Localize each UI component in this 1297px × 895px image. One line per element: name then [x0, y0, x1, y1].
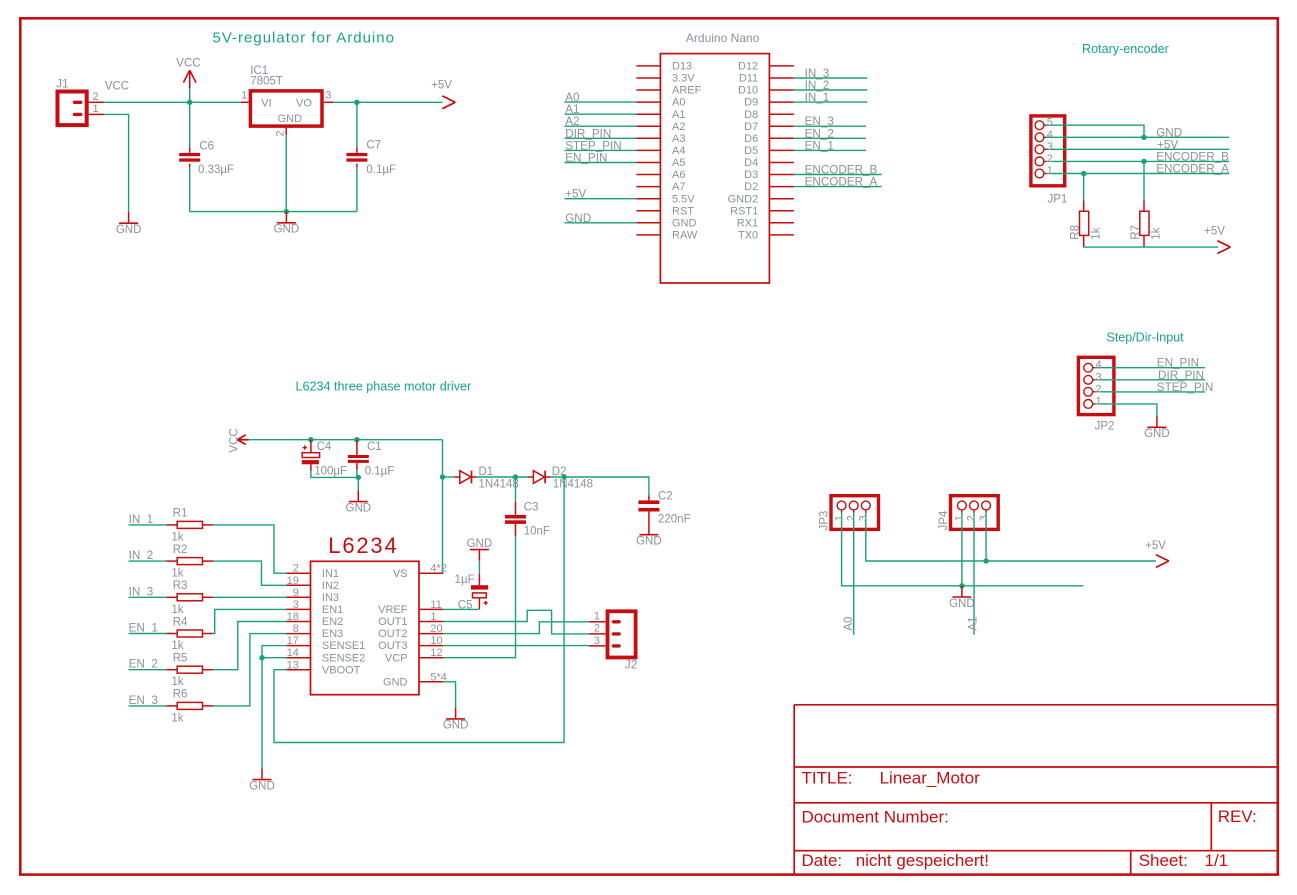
Arduino left pin A0 stub [636, 101, 660, 103]
supply symbol VCC left arrow [229, 428, 249, 452]
wire net DIR_PIN [1116, 379, 1205, 381]
wire GND drop under C1 [357, 477, 359, 490]
svg-text:1k: 1k [171, 568, 183, 580]
svg-text:GND: GND [346, 502, 372, 514]
svg-text:EN_3: EN_3 [805, 115, 834, 128]
svg-text:Step/Dir-Input: Step/Dir-Input [1107, 331, 1185, 345]
wire net ENCODER_A rotary [1066, 173, 1229, 175]
junction VCC at C1 [354, 437, 359, 442]
Arduino left pin A7 stub [636, 186, 660, 188]
diode D2 1N4148 [528, 466, 593, 490]
junction ENCODER_B at R7 [1141, 159, 1146, 164]
svg-text:2: 2 [275, 130, 287, 136]
resistor R6 1k [166, 689, 213, 725]
pin header JP3 [819, 496, 879, 537]
Arduino right pin D5 stub [769, 149, 794, 151]
capacitor C1 [348, 440, 395, 478]
L6234 pin 5*4 (GND) stub [419, 681, 443, 683]
svg-text:3: 3 [1047, 141, 1053, 153]
svg-text:STEP_PIN: STEP_PIN [1157, 381, 1214, 394]
svg-text:+5V: +5V [1157, 138, 1178, 151]
capacitor C5 (electrolytic, flipped) [455, 574, 489, 611]
wire net A0 [853, 537, 855, 635]
junction GND under C1 [356, 475, 361, 480]
wire +5V from IC1 VO [333, 101, 442, 103]
ground symbol JP2 [1144, 416, 1170, 440]
wire net EN_PIN to Arduino A5 [564, 162, 636, 164]
Arduino right pin D9 stub [769, 101, 794, 103]
L6234 pin 19 (IN2) stub [287, 584, 311, 586]
svg-text:+5V: +5V [565, 188, 586, 201]
wire net A1 [973, 537, 975, 635]
svg-text:GND2: GND2 [728, 193, 759, 205]
wire JP4 pin1 drop [961, 537, 963, 586]
svg-text:GND: GND [249, 780, 275, 792]
svg-text:A0: A0 [842, 616, 855, 631]
svg-text:GND: GND [565, 212, 591, 225]
svg-text:C6: C6 [199, 140, 214, 152]
svg-text:EN_2: EN_2 [129, 658, 158, 671]
wire pullups to +5V arrow [1084, 246, 1218, 248]
wire net EN_1 from Arduino D5 [794, 149, 866, 151]
svg-text:1: 1 [93, 103, 99, 115]
svg-text:OUT2: OUT2 [378, 628, 407, 640]
svg-text:GND: GND [274, 224, 300, 236]
svg-text:ENCODER_A: ENCODER_A [1156, 163, 1229, 176]
Arduino right pin D4 stub [769, 162, 794, 164]
svg-text:2: 2 [845, 515, 857, 521]
wire net DIR_PIN to Arduino A3 [564, 137, 636, 139]
svg-text:EN2: EN2 [322, 616, 343, 628]
svg-text:D11: D11 [739, 73, 758, 85]
wire VS branch to D1 [443, 476, 455, 478]
wire J1 pin1 to GND [104, 114, 129, 212]
wire R3 to IN3 [213, 596, 286, 598]
Arduino left pin A5 stub [636, 162, 660, 164]
junction VCC at C6 [187, 100, 192, 105]
Arduino right pin D6 stub [769, 137, 794, 139]
Arduino right pin D12 stub [769, 65, 794, 67]
capacitor C7 [346, 140, 396, 176]
svg-text:18: 18 [287, 611, 299, 623]
title block Document Number row text [802, 807, 1257, 826]
svg-text:IN2: IN2 [322, 580, 339, 592]
svg-text:1k: 1k [171, 712, 183, 724]
svg-text:2: 2 [966, 515, 978, 521]
svg-text:IN_2: IN_2 [129, 549, 154, 562]
svg-text:RAW: RAW [672, 230, 698, 242]
svg-text:ENCODER_B: ENCODER_B [805, 164, 878, 177]
L6234 pin 10 (OUT3) stub [419, 645, 443, 647]
svg-text:JP4: JP4 [938, 510, 950, 530]
svg-text:+5V: +5V [1204, 226, 1225, 238]
wire IC1 pin2 down to GND rail [285, 135, 287, 211]
svg-text:3: 3 [594, 635, 600, 647]
svg-text:0.33µF: 0.33µF [198, 164, 234, 176]
pin header JP1 [1031, 116, 1067, 206]
svg-text:IN_3: IN_3 [129, 585, 154, 598]
svg-text:IN3: IN3 [322, 592, 339, 604]
svg-text:GND: GND [949, 598, 975, 610]
L6234 pin 12 (VCP) stub [419, 657, 443, 659]
voltage regulator IC1 7805T [250, 65, 322, 126]
svg-text:2: 2 [1096, 383, 1102, 395]
L6234 pin 14 (SENSE2) stub [287, 657, 311, 659]
svg-text:VS: VS [393, 568, 408, 580]
svg-text:DIR_PIN: DIR_PIN [565, 127, 611, 140]
resistor R2 1k [166, 544, 213, 580]
svg-text:VCC: VCC [105, 80, 129, 92]
junction VS-diode branch [440, 474, 445, 479]
svg-text:R4: R4 [173, 616, 188, 628]
wire D1 cathode to D2 anode [477, 476, 528, 478]
svg-text:GND: GND [278, 113, 303, 125]
junction D2-VBOOT [561, 474, 566, 479]
svg-text:12: 12 [430, 647, 442, 659]
connector J2 [608, 611, 638, 671]
svg-text:3: 3 [858, 515, 870, 521]
svg-text:EN_PIN: EN_PIN [1157, 357, 1199, 370]
J2 pin 2 stub [589, 633, 606, 635]
svg-text:JP2: JP2 [1095, 420, 1115, 432]
wire net IN_1 from Arduino D9 [794, 101, 867, 103]
wire C5 to VREF [443, 608, 479, 610]
resistor R3 1k [166, 580, 213, 616]
supply symbol +5V arrow (headers) [1145, 540, 1169, 567]
svg-text:1k: 1k [171, 640, 183, 652]
svg-text:GND: GND [116, 224, 142, 236]
svg-text:C1: C1 [367, 441, 382, 453]
wire net EN_2 from Arduino D6 [794, 137, 866, 139]
L6234 pin 11 (VREF) stub [419, 608, 443, 610]
svg-text:EN_1: EN_1 [805, 139, 834, 152]
svg-text:C4: C4 [317, 441, 332, 453]
ground symbol above C5 (flipped) [467, 538, 493, 561]
svg-text:R6: R6 [173, 689, 188, 701]
svg-text:14: 14 [287, 647, 299, 659]
wire JP4 pin3 drop [985, 537, 987, 561]
junction ENCODER_A at R8 [1081, 171, 1086, 176]
wire R1 to IN1 [213, 525, 286, 573]
svg-text:R2: R2 [173, 544, 188, 556]
wire C7 to GND rail [356, 167, 358, 212]
L6234 pin 8 (EN3) stub [287, 633, 311, 635]
svg-text:EN_1: EN_1 [129, 622, 158, 635]
Arduino left pin GND stub [636, 222, 660, 224]
Arduino left pin A4 stub [636, 149, 660, 151]
svg-text:Arduino Nano: Arduino Nano [686, 31, 760, 45]
svg-text:VBOOT: VBOOT [322, 664, 361, 676]
wire net STEP_PIN [1116, 391, 1205, 393]
wire R2 to IN2 [213, 561, 286, 585]
svg-text:19: 19 [287, 575, 299, 587]
ground symbol J1 [116, 212, 142, 236]
svg-text:EN_3: EN_3 [129, 694, 158, 707]
svg-text:L6234 three phase motor driver: L6234 three phase motor driver [296, 380, 472, 394]
wire net +5V rotary [1066, 148, 1229, 150]
svg-text:VREF: VREF [378, 604, 408, 616]
capacitor C3 [505, 477, 550, 538]
wire EN_2 to R5 [129, 669, 167, 671]
L6234 driver IC body [311, 561, 420, 694]
wire net +5V to Arduino 5.5V [564, 198, 636, 200]
svg-text:1: 1 [833, 515, 845, 521]
svg-text:A7: A7 [672, 181, 685, 193]
Arduino left pin 5.5V stub [636, 198, 660, 200]
wire IN_2 to R2 [129, 560, 167, 562]
svg-text:C2: C2 [658, 490, 673, 502]
svg-text:VI: VI [261, 97, 271, 109]
Arduino right pin D10 stub [769, 89, 794, 91]
diode D1 1N4148 [454, 466, 518, 490]
svg-text:STEP_PIN: STEP_PIN [565, 139, 622, 152]
svg-text:1k: 1k [1151, 227, 1163, 239]
capacitor C2 [638, 490, 690, 525]
svg-text:3: 3 [1096, 371, 1102, 383]
wire R4 to EN1 [213, 609, 286, 633]
title block outline [794, 705, 1278, 875]
svg-text:JP1: JP1 [1048, 194, 1068, 206]
L6234 pin 1 (OUT1) stub [419, 621, 443, 623]
wire net A0 to Arduino A0 [564, 101, 636, 103]
pin header JP2 [1078, 357, 1115, 432]
Arduino right pin D7 stub [769, 125, 794, 127]
svg-text:A2: A2 [672, 121, 685, 133]
IC1 pin 1 stub [241, 101, 249, 103]
resistor R8 [1070, 200, 1103, 247]
svg-text:9: 9 [293, 587, 299, 599]
svg-text:EN_2: EN_2 [805, 127, 834, 140]
svg-text:AREF: AREF [672, 85, 702, 97]
svg-text:D8: D8 [744, 109, 758, 121]
svg-text:R5: R5 [173, 653, 188, 665]
pin header JP4 [938, 496, 998, 537]
svg-text:D10: D10 [738, 85, 758, 97]
svg-text:2: 2 [594, 623, 600, 635]
svg-text:100µF: 100µF [314, 466, 347, 478]
svg-text:13: 13 [287, 659, 299, 671]
Arduino left pin A2 stub [636, 125, 660, 127]
Arduino left pin D13 stub [636, 65, 660, 67]
resistor R7 [1130, 200, 1163, 247]
svg-text:VCC: VCC [176, 58, 200, 70]
svg-text:1k: 1k [171, 604, 183, 616]
svg-text:5.5V: 5.5V [672, 193, 695, 205]
Arduino right pin D2 stub [769, 186, 794, 188]
wire net STEP_PIN to Arduino A4 [564, 149, 636, 151]
wire JP3 pin3 to +5V rail [866, 537, 1156, 561]
wire +5V down to C7 [356, 102, 358, 147]
svg-text:2: 2 [1047, 153, 1053, 165]
L6234 pin 18 (EN2) stub [287, 621, 311, 623]
wire VCC rail L6234 [249, 439, 443, 441]
svg-text:1µF: 1µF [455, 574, 475, 586]
Arduino right pin D8 stub [769, 113, 794, 115]
wire C3 top [515, 477, 517, 502]
ground symbol under IC1 [274, 212, 300, 236]
svg-text:IN_1: IN_1 [805, 91, 830, 104]
ground symbol headers [949, 586, 975, 610]
Arduino left pin 3.3V stub [636, 77, 660, 79]
wire net GND rotary [1066, 136, 1229, 138]
IC1 pin 3 stub [324, 101, 334, 103]
svg-text:D5: D5 [744, 145, 758, 157]
L6234 pin 3 (EN1) stub [287, 608, 311, 610]
svg-text:TX0: TX0 [738, 230, 758, 242]
Arduino right pin RX1 stub [769, 222, 794, 224]
svg-text:RX1: RX1 [737, 217, 758, 229]
junction VCC at C4 [308, 437, 313, 442]
Arduino right pin GND2 stub [769, 198, 794, 200]
svg-text:R3: R3 [173, 580, 188, 592]
capacitor C4 (electrolytic) [302, 440, 347, 478]
svg-text:D7: D7 [744, 121, 758, 133]
junction +5V at C7 [354, 100, 359, 105]
wire OUT2 to J2 pin1 [443, 622, 589, 634]
svg-text:1/1: 1/1 [1205, 851, 1229, 870]
svg-text:1: 1 [954, 515, 966, 521]
svg-text:nicht gespeichert!: nicht gespeichert! [856, 851, 989, 870]
svg-text:D3: D3 [744, 169, 758, 181]
svg-text:RST1: RST1 [730, 205, 758, 217]
svg-text:ENCODER_B: ENCODER_B [1156, 151, 1229, 164]
title block TITLE row text [802, 768, 981, 787]
ground symbol sense [249, 768, 275, 792]
connector J1 [56, 77, 87, 125]
resistor R5 1k [166, 653, 213, 689]
svg-text:A5: A5 [672, 157, 685, 169]
junction +5V at JP4 pin3 [983, 558, 988, 563]
wire C3 to VCP [443, 536, 515, 658]
wire C4 to GND corner [311, 471, 358, 478]
svg-text:D9: D9 [744, 97, 758, 109]
svg-text:EN1: EN1 [322, 604, 343, 616]
svg-text:A6: A6 [672, 169, 685, 181]
supply symbol +5V arrow (regulator) [431, 80, 455, 109]
svg-text:3: 3 [978, 515, 990, 521]
svg-text:R7: R7 [1130, 225, 1142, 240]
svg-text:VO: VO [296, 97, 312, 109]
svg-text:IN_1: IN_1 [129, 513, 154, 526]
svg-text:1k: 1k [171, 531, 183, 543]
svg-text:GND: GND [672, 217, 697, 229]
Arduino left pin A6 stub [636, 174, 660, 176]
svg-text:SENSE2: SENSE2 [322, 652, 365, 664]
svg-text:17: 17 [287, 635, 299, 647]
svg-text:JP3: JP3 [819, 511, 831, 531]
svg-text:A2: A2 [565, 115, 579, 128]
svg-text:1: 1 [1047, 165, 1053, 177]
wire net ENCODER_B from Arduino D3 [794, 174, 882, 176]
wire ENCODER_B down to R7 [1143, 161, 1145, 200]
L6234 pin 13 (VBOOT) stub [287, 669, 311, 671]
svg-text:20: 20 [430, 623, 442, 635]
svg-text:3.3V: 3.3V [672, 73, 695, 85]
svg-text:TITLE:: TITLE: [802, 768, 853, 787]
svg-text:OUT1: OUT1 [378, 616, 407, 628]
wire C1 to GND drop [356, 470, 358, 477]
svg-text:GND: GND [1156, 126, 1182, 139]
resistor R1 1k [166, 508, 213, 544]
svg-text:D2: D2 [744, 181, 758, 193]
wire VCC from J1 pin2 to IC1 VI [104, 101, 241, 103]
svg-text:ENCODER_A: ENCODER_A [805, 176, 878, 189]
wire GND rail under regulator [190, 211, 357, 213]
svg-text:EN3: EN3 [322, 628, 343, 640]
L6234 pin 4*2 (VS) stub [419, 572, 443, 574]
svg-text:1: 1 [241, 89, 247, 101]
wire C6 to GND rail [189, 167, 191, 212]
svg-text:EN_PIN: EN_PIN [565, 152, 607, 165]
svg-text:1k: 1k [171, 676, 183, 688]
svg-text:GND: GND [636, 536, 662, 548]
J2 pin 1 stub [589, 621, 606, 623]
svg-text:R1: R1 [173, 508, 188, 520]
junction GND at JP4 pin1 [959, 583, 964, 588]
wire IN_3 to R3 [129, 596, 167, 598]
svg-text:1: 1 [430, 611, 436, 623]
Arduino right pin RST1 stub [769, 210, 794, 212]
wire IN_1 to R1 [129, 524, 167, 526]
wire net EN_3 from Arduino D7 [794, 125, 866, 127]
svg-text:IN1: IN1 [322, 568, 339, 580]
svg-text:GND: GND [467, 538, 493, 550]
svg-text:A4: A4 [672, 145, 685, 157]
wire net ENCODER_A from Arduino D2 [794, 186, 882, 188]
wire JP1 pin5 to GND net [1066, 125, 1144, 137]
svg-text:0.1µF: 0.1µF [366, 164, 396, 176]
wire SENSE1 to SENSE2 [262, 646, 287, 658]
junction SENSE1-SENSE2 [259, 655, 264, 660]
svg-text:8: 8 [293, 623, 299, 635]
svg-text:D13: D13 [672, 61, 692, 73]
J2 pin 3 stub [589, 645, 606, 647]
wire net A2 to Arduino A2 [564, 125, 636, 127]
svg-text:10nF: 10nF [524, 526, 550, 538]
L6234 pin 17 (SENSE1) stub [287, 645, 311, 647]
svg-text:J2: J2 [625, 657, 638, 671]
Arduino right pin TX0 stub [769, 234, 794, 236]
Arduino left pin RST stub [636, 210, 660, 212]
Arduino right pin D11 stub [769, 77, 794, 79]
wire R5 to EN2 [213, 622, 286, 670]
svg-text:VCP: VCP [385, 652, 408, 664]
junction D1-C3 [513, 474, 518, 479]
svg-text:5: 5 [1047, 117, 1053, 129]
svg-text:3: 3 [293, 599, 299, 611]
L6234 pin 2 (IN1) stub [287, 572, 311, 574]
wire VCC down to VS [442, 440, 445, 574]
svg-text:4: 4 [1096, 359, 1102, 371]
ground symbol under L6234 [443, 708, 469, 732]
wire EN_1 to R4 [129, 633, 167, 635]
svg-text:A1: A1 [672, 109, 685, 121]
resistor R4 1k [166, 616, 213, 652]
supply symbol +5V arrow (rotary) [1204, 226, 1230, 254]
svg-text:4: 4 [1047, 129, 1053, 141]
svg-text:GND: GND [443, 720, 469, 732]
svg-text:GND: GND [383, 676, 408, 688]
wire net A1 to Arduino A1 [564, 113, 636, 115]
wire net EN_PIN [1116, 367, 1205, 369]
L6234 pin 9 (IN3) stub [287, 596, 311, 598]
svg-text:Sheet:: Sheet: [1139, 851, 1188, 870]
svg-text:REV:: REV: [1218, 807, 1257, 826]
wire net GND to Arduino GND [564, 222, 636, 224]
svg-text:VCC: VCC [229, 428, 241, 452]
svg-text:+5V: +5V [1145, 540, 1166, 552]
svg-text:1: 1 [594, 611, 600, 623]
